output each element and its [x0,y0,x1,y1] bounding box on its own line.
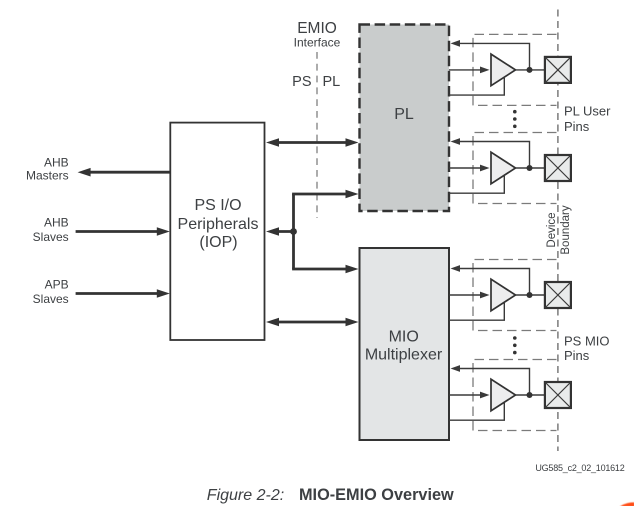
EMIO interface dashed separator line [316,52,318,218]
wire: input from PL to buffer [449,167,482,169]
svg-text:Peripherals: Peripherals [178,216,259,233]
EMIO buffer cell 1 dashed box [473,34,557,105]
output buffer triangle [491,54,516,86]
wire: output feedback from pad node to MIO [460,269,530,296]
svg-text:UG585_c2_02_101612: UG585_c2_02_101612 [535,463,624,473]
wire: IOP to MIO multiplexer bidirectional bus [276,321,348,324]
output buffer triangle [491,279,516,311]
svg-text:Boundary: Boundary [560,205,572,254]
svg-text:MIO-EMIO Overview: MIO-EMIO Overview [299,486,454,504]
wire: APB slaves arrow into IOP [76,292,158,295]
junction node on buffer output [527,67,533,73]
MIO buffer cell 2 dashed box [473,360,557,431]
svg-text:EMIO: EMIO [297,20,337,37]
junction node on buffer output [527,392,533,398]
wire: output feedback from pad node to PL [460,142,530,169]
wire: buffer output to pad [516,394,546,396]
wire: input from MIO to buffer [449,294,482,296]
wire: input from PL to buffer [449,69,482,71]
svg-text:PS I/O: PS I/O [194,197,241,214]
svg-text:Multiplexer: Multiplexer [365,347,443,364]
svg-text:Slaves: Slaves [33,230,69,244]
ellipsis dots between MIO cells [513,336,517,340]
MIO multiplexer block [360,248,450,440]
svg-text:Slaves: Slaves [33,292,69,306]
wire: tristate enable from MIO to buffer [449,303,504,320]
svg-text:PL User: PL User [564,103,611,118]
svg-text:APB: APB [45,278,69,292]
svg-text:AHB: AHB [44,216,69,230]
svg-text:AHB: AHB [44,156,69,170]
wire: EMIO vertical split [292,194,295,269]
svg-text:Pins: Pins [564,119,590,134]
IO pad [545,282,571,308]
wire: EMIO branch to MIO multiplexer [292,268,348,271]
svg-text:(IOP): (IOP) [199,234,237,251]
wire: input from MIO to buffer [449,394,482,396]
EMIO buffer cell 2 dashed box [473,133,557,204]
svg-text:PL: PL [323,74,341,90]
junction node on buffer output [527,292,533,298]
wire: buffer output to pad [516,294,546,296]
PS I/O Peripherals (IOP) block [170,123,264,340]
svg-text:MIO: MIO [389,329,419,346]
IO pad [545,57,571,83]
ellipsis dots between EMIO cells [513,110,517,114]
wire: tristate enable from MIO to buffer [449,403,504,420]
svg-text:PL: PL [394,106,414,123]
wire: output feedback from pad node to PL [460,43,530,70]
wire: EMIO branch to PL [292,193,348,196]
IO pad [545,382,571,408]
output buffer triangle [491,379,516,411]
wire: tristate enable from PL to buffer [449,78,504,95]
junction node on buffer output [527,165,533,171]
wire: buffer output to pad [516,167,546,169]
device boundary dashed line [557,10,559,452]
wire: EMIO path from IOP (arrow into IOP) [276,230,294,233]
wire: IOP to PL bidirectional bus [276,141,348,144]
IO pad [545,155,571,181]
PL block [360,25,450,212]
wire: tristate enable from PL to buffer [449,176,504,193]
svg-text:Figure 2-2:: Figure 2-2: [207,487,284,504]
wire: AHB masters arrow out of IOP [90,171,170,174]
svg-text:Device: Device [546,212,558,247]
svg-text:Pins: Pins [564,348,590,363]
svg-text:PS: PS [292,74,311,90]
wire: buffer output to pad [516,69,546,71]
junction node on EMIO path [290,228,297,235]
wire: AHB slaves arrow into IOP [76,230,158,233]
wire: output feedback from pad node to MIO [460,369,530,396]
svg-text:PS MIO: PS MIO [564,334,610,349]
svg-text:Interface: Interface [294,36,341,50]
decorative orange mark bottom-right [620,502,634,506]
output buffer triangle [491,152,516,184]
svg-text:Masters: Masters [26,169,69,183]
MIO buffer cell 1 dashed box [473,260,557,331]
label Device Boundary (rotated) [546,205,572,254]
